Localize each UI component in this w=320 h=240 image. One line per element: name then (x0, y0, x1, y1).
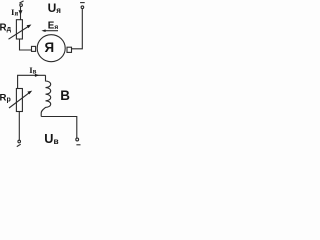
inductor B (field winding), 4 half-loops (41, 75, 50, 116)
wire: feeder from top-left terminal down to Rd with current arrow (19, 6, 23, 19)
armature machine circle Я (37, 35, 65, 62)
terminal top-right (circle + dash) (80, 3, 85, 9)
terminal bottom-right (circle + dash) (76, 138, 81, 145)
svg-text:В: В (60, 88, 70, 103)
brush right (67, 47, 72, 52)
wire: Rд bottom to left brush (20, 39, 32, 50)
svg-text:Я: Я (44, 40, 54, 55)
wire: Rр bottom down to bottom-left terminal (18, 112, 20, 141)
wire: field-circuit top horizontal with current arrow Iв (18, 74, 46, 89)
terminal bottom-left (circle + tick) (17, 140, 21, 146)
label Ея with EMF arrow pointing left (41, 20, 58, 32)
brush left (32, 46, 36, 51)
terminal top-left (tick + circle) (19, 1, 23, 6)
wire: right brush up to top-right terminal (72, 9, 83, 49)
resistor Rр (adjustable rheostat) (9, 89, 32, 112)
wire: coil bottom right to bottom-right terminal (41, 117, 77, 139)
resistor Rд (adjustable rheostat) (9, 20, 32, 40)
